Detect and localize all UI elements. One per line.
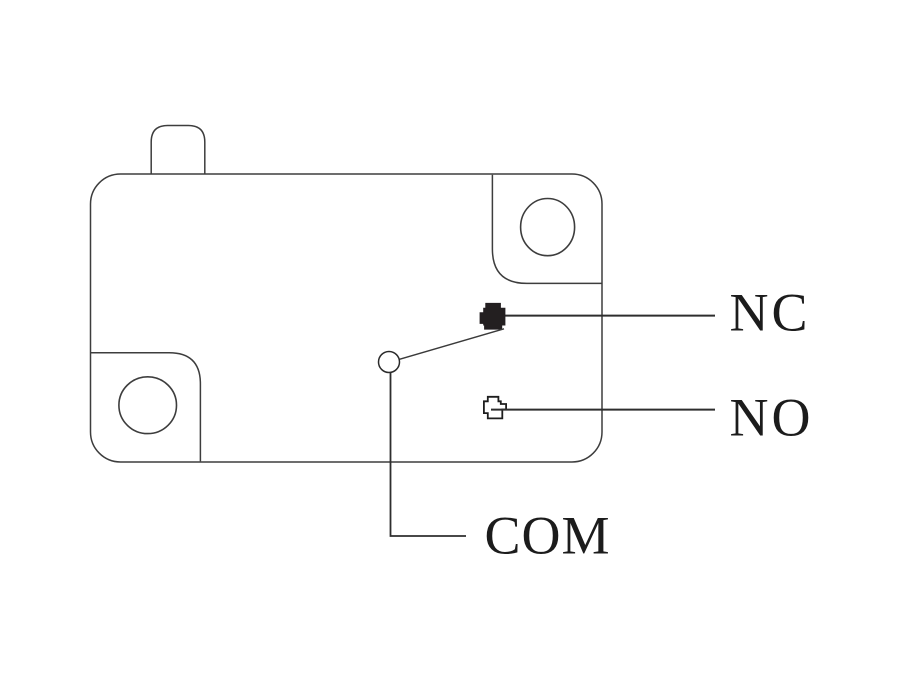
top-right mounting lug notch <box>492 175 601 284</box>
svg-text:NC: NC <box>730 283 811 343</box>
bottom-left mounting lug notch <box>91 353 201 462</box>
NO lead wire <box>491 409 715 411</box>
svg-text:NO: NO <box>730 388 814 448</box>
lever wire <box>399 329 504 360</box>
COM pivot contact <box>379 352 400 373</box>
svg-text:COM: COM <box>485 506 611 566</box>
NC contact (filled) <box>480 303 505 329</box>
COM lead wire <box>391 373 467 537</box>
plunger button <box>151 126 205 175</box>
bottom-left mounting hole <box>119 377 177 434</box>
NO contact (outline) <box>484 397 506 419</box>
switch body outline <box>91 174 603 462</box>
top-right mounting hole <box>521 199 575 256</box>
NC lead wire <box>503 315 715 317</box>
